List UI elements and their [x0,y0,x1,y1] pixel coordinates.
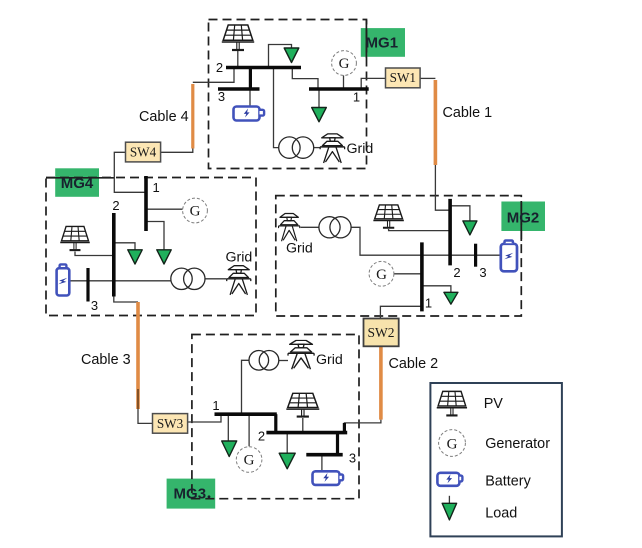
svg-text:Grid: Grid [316,352,343,368]
svg-text:SW2: SW2 [368,325,395,340]
svg-text:1: 1 [353,90,360,105]
svg-text:2: 2 [216,60,223,75]
svg-text:G: G [339,56,350,72]
svg-text:MG3: MG3 [174,486,207,503]
svg-text:G: G [244,453,255,469]
svg-text:1: 1 [153,180,160,195]
svg-text:Grid: Grid [226,250,253,266]
svg-text:Cable 1: Cable 1 [443,105,493,121]
svg-text:Cable 2: Cable 2 [389,356,439,372]
svg-text:SW4: SW4 [130,144,157,159]
svg-text:3: 3 [349,451,356,466]
svg-text:Cable 4: Cable 4 [139,109,189,125]
svg-text:3: 3 [218,89,225,104]
svg-text:MG4: MG4 [61,175,94,192]
svg-text:Grid: Grid [347,141,374,157]
svg-text:1: 1 [212,398,219,413]
svg-text:G: G [190,204,201,220]
svg-text:Load: Load [485,506,517,522]
svg-text:2: 2 [258,429,265,444]
svg-text:Battery: Battery [485,473,531,489]
svg-text:MG1: MG1 [366,35,399,52]
svg-text:2: 2 [112,198,119,213]
svg-text:Cable 3: Cable 3 [81,352,131,368]
svg-text:3: 3 [91,298,98,313]
svg-text:Generator: Generator [485,436,550,452]
svg-text:MG2: MG2 [507,209,540,226]
svg-text:1: 1 [425,296,432,311]
svg-text:SW1: SW1 [390,70,416,85]
svg-text:3: 3 [479,265,486,280]
svg-text:PV: PV [484,396,504,412]
svg-text:2: 2 [453,265,460,280]
svg-text:SW3: SW3 [157,416,184,431]
svg-text:G: G [376,267,387,283]
svg-text:Grid: Grid [286,241,313,257]
